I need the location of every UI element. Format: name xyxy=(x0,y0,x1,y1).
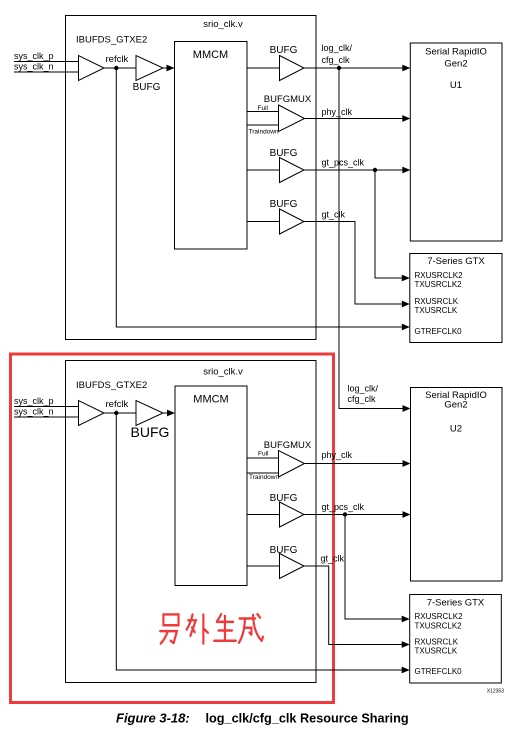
buffer BUFG refclk (bottom) xyxy=(136,401,163,426)
svg-text:gt_pcs_clk: gt_pcs_clk xyxy=(322,158,365,168)
block 7-Series GTX (bottom) xyxy=(410,595,502,684)
arrowhead RXUSRCLK2 (top) xyxy=(402,275,410,282)
svg-text:GTREFCLK0: GTREFCLK0 xyxy=(415,327,463,336)
wire gt_pcs_clk (bottom) xyxy=(304,514,403,516)
caption Figure 3-18 xyxy=(116,711,190,726)
label BUFG log_clk (top) xyxy=(270,45,298,56)
block MMCM (top) xyxy=(175,42,248,250)
svg-text:IBUFDS_GTXE2: IBUFDS_GTXE2 xyxy=(76,380,147,391)
svg-text:sys_clk_n: sys_clk_n xyxy=(14,407,54,417)
svg-text:gt_pcs_clk: gt_pcs_clk xyxy=(322,502,365,512)
buffer BUFG refclk (top) xyxy=(136,56,163,81)
net label gt_clk (top) xyxy=(322,210,346,220)
arrowhead into MMCM (bottom) xyxy=(167,410,175,417)
wire gt_pcs_clk (top) xyxy=(304,169,403,171)
svg-text:X12353: X12353 xyxy=(487,689,504,695)
pin label TXUSRCLK (bottom) xyxy=(415,647,458,656)
label U1 xyxy=(450,80,462,91)
net label sys_clk_p (bottom) xyxy=(14,396,54,406)
label Serial RapidIO (U1) xyxy=(425,47,487,58)
pin label Full (top) xyxy=(258,105,269,112)
buffer BUFG gt_clk (top) xyxy=(280,209,305,234)
svg-text:U2: U2 xyxy=(450,424,462,435)
label srio_clk.v (bottom) xyxy=(203,367,243,378)
net label phy_clk (top) xyxy=(322,107,353,117)
svg-text:sys_clk_p: sys_clk_p xyxy=(14,51,54,61)
junction gt_pcs_clk (bottom) xyxy=(343,512,347,516)
wire BUFG to MMCM (top) xyxy=(163,67,167,69)
net label phy_clk (bottom) xyxy=(322,450,353,460)
svg-text:Full: Full xyxy=(258,451,269,458)
mux BUFGMUX (bottom) xyxy=(279,451,305,478)
label U2 xyxy=(450,424,462,435)
svg-text:log_clk/: log_clk/ xyxy=(322,43,353,53)
figure number tag X12353 xyxy=(487,689,504,695)
svg-text:GTREFCLK0: GTREFCLK0 xyxy=(415,667,463,676)
label 7-Series GTX (bottom) xyxy=(427,598,485,609)
svg-text:BUFGMUX: BUFGMUX xyxy=(264,440,312,451)
svg-text:TXUSRCLK2: TXUSRCLK2 xyxy=(415,280,463,289)
svg-text:log_clk/cfg_clk Resource Shari: log_clk/cfg_clk Resource Sharing xyxy=(206,712,409,726)
pin label GTREFCLK0 (bottom) xyxy=(415,667,463,676)
svg-text:gt_clk: gt_clk xyxy=(321,554,345,564)
annotation 另外生成 (red hand-drawn CJK strokes) xyxy=(160,614,263,643)
svg-text:sys_clk_n: sys_clk_n xyxy=(14,62,54,72)
wire gt_clk to RXUSRCLK (bottom) xyxy=(304,566,402,645)
svg-text:srio_clk.v: srio_clk.v xyxy=(203,19,243,30)
arrowhead phy_clk into U1 xyxy=(402,115,410,122)
arrowhead gt_pcs_clk into U1 xyxy=(402,167,410,174)
svg-text:BUFG: BUFG xyxy=(131,424,170,440)
arrowhead GTREFCLK0 (bottom) xyxy=(402,667,410,674)
svg-text:TXUSRCLK2: TXUSRCLK2 xyxy=(415,622,463,631)
pin label TXUSRCLK2 (bottom) xyxy=(415,622,463,631)
mux BUFGMUX (top) xyxy=(279,105,305,132)
svg-text:BUFGMUX: BUFGMUX xyxy=(264,94,312,105)
svg-text:BUFG: BUFG xyxy=(133,82,161,93)
label BUFGMUX (top) xyxy=(264,94,312,105)
svg-text:7-Series GTX: 7-Series GTX xyxy=(427,598,485,609)
svg-text:sys_clk_p: sys_clk_p xyxy=(14,396,54,406)
net label cfg_clk (top) xyxy=(322,55,351,65)
buffer IBUFDS_GTXE2 (bottom) xyxy=(79,401,105,426)
label BUFG gt_pcs_clk (bottom) xyxy=(270,493,298,504)
wire Traindown stub (bottom) xyxy=(247,472,279,474)
svg-text:refclk: refclk xyxy=(106,54,129,65)
arrowhead log_clk into U1 xyxy=(402,65,410,72)
wire MMCM to BUFG gt_pcs_clk (top) xyxy=(247,169,280,171)
svg-text:cfg_clk: cfg_clk xyxy=(322,55,351,65)
label MMCM (top) xyxy=(193,49,228,61)
label srio_clk.v (top) xyxy=(203,19,243,30)
svg-text:RXUSRCLK: RXUSRCLK xyxy=(415,638,459,647)
arrowhead GTREFCLK0 (top) xyxy=(402,324,410,331)
wire gt_pcs_clk to RXUSRCLK2 (bottom) xyxy=(345,515,402,620)
wire Traindown stub (top) xyxy=(247,124,279,126)
label MMCM (bottom) xyxy=(193,394,228,406)
junction refclk (top) xyxy=(114,66,118,70)
buffer IBUFDS_GTXE2 (top) xyxy=(79,56,105,81)
net label refclk (bottom) xyxy=(106,399,129,410)
block Serial RapidIO Gen2 U1 xyxy=(410,43,502,241)
wire sys_clk_n (top) xyxy=(14,71,79,73)
pin label TXUSRCLK (top) xyxy=(415,306,458,315)
arrowhead phy_clk into U2 xyxy=(403,460,411,467)
wire log_clk to U1 (top) xyxy=(304,67,403,69)
svg-text:Gen2: Gen2 xyxy=(444,400,467,411)
net label gt_pcs_clk (top) xyxy=(322,158,365,168)
svg-text:srio_clk.v: srio_clk.v xyxy=(203,367,243,378)
wire gt_pcs_clk to RXUSRCLK2 (top) xyxy=(375,170,402,278)
wire sys_clk_p (top) xyxy=(14,61,79,63)
pin label TXUSRCLK2 (top) xyxy=(415,280,463,289)
pin label Full (bottom) xyxy=(258,451,269,458)
wire sys_clk_p (bottom) xyxy=(14,406,79,408)
net label gt_pcs_clk (bottom) xyxy=(322,502,365,512)
pin label RXUSRCLK2 (bottom) xyxy=(415,612,464,621)
junction refclk (bottom) xyxy=(114,411,118,415)
buffer BUFG gt_pcs_clk (top) xyxy=(280,158,305,183)
svg-text:Figure 3-18:: Figure 3-18: xyxy=(116,711,190,726)
svg-text:phy_clk: phy_clk xyxy=(322,450,353,460)
svg-text:Serial RapidIO: Serial RapidIO xyxy=(425,47,487,58)
caption title xyxy=(206,712,409,726)
junction log_clk (top) xyxy=(337,66,341,70)
label BUFG gt_pcs_clk (top) xyxy=(270,148,298,159)
svg-text:U1: U1 xyxy=(450,80,462,91)
wire MMCM to BUFG gt_clk (top) xyxy=(247,221,280,223)
wire refclk (bottom) xyxy=(104,412,136,414)
buffer BUFG log_clk (top) xyxy=(280,56,305,81)
label IBUFDS_GTXE2 (bottom) xyxy=(76,380,147,391)
svg-text:Traindown: Traindown xyxy=(249,474,279,481)
wire MMCM to BUFG gt_clk (bottom) xyxy=(247,565,280,567)
net label sys_clk_p (top) xyxy=(14,51,54,61)
svg-text:TXUSRCLK: TXUSRCLK xyxy=(415,647,458,656)
svg-text:BUFG: BUFG xyxy=(270,148,298,159)
wire refclk to GTREFCLK0 (top) xyxy=(116,68,403,327)
wire gt_clk to RXUSRCLK (top) xyxy=(304,222,402,305)
arrowhead RXUSRCLK2 (bottom) xyxy=(402,616,410,623)
pin label GTREFCLK0 (top) xyxy=(415,327,463,336)
svg-text:BUFG: BUFG xyxy=(270,199,298,210)
wire phy_clk (top) xyxy=(305,118,404,120)
svg-text:BUFG: BUFG xyxy=(270,45,298,56)
wire sys_clk_n (bottom) xyxy=(14,416,79,418)
pin label RXUSRCLK (top) xyxy=(415,297,459,306)
pin label Traindown (bottom) xyxy=(249,474,279,481)
svg-text:phy_clk: phy_clk xyxy=(322,107,353,117)
wire MMCM to BUFG gt_pcs_clk (bottom) xyxy=(247,514,280,516)
module box srio_clk.v (top) xyxy=(66,16,317,340)
net label cfg_clk (bottom) xyxy=(348,394,377,404)
svg-text:Traindown: Traindown xyxy=(249,129,279,136)
block MMCM (bottom) xyxy=(175,386,247,586)
highlight red box xyxy=(11,354,334,703)
svg-text:BUFG: BUFG xyxy=(270,545,298,556)
svg-text:MMCM: MMCM xyxy=(193,49,228,61)
svg-text:RXUSRCLK: RXUSRCLK xyxy=(415,297,459,306)
pin label Traindown (top) xyxy=(249,129,279,136)
svg-text:cfg_clk: cfg_clk xyxy=(348,394,377,404)
svg-text:refclk: refclk xyxy=(106,399,129,410)
pin label RXUSRCLK (bottom) xyxy=(415,638,459,647)
svg-text:7-Series GTX: 7-Series GTX xyxy=(427,256,485,267)
arrowhead log_clk into U2 xyxy=(403,405,411,412)
arrowhead RXUSRCLK (top) xyxy=(402,301,410,308)
pin label RXUSRCLK2 (top) xyxy=(415,271,464,280)
net label refclk (top) xyxy=(106,54,129,65)
svg-text:Full: Full xyxy=(258,105,269,112)
label Serial RapidIO (U2) xyxy=(425,390,487,401)
label Gen2 (U1) xyxy=(444,59,467,70)
wire log_clk shared to U2 xyxy=(339,68,403,409)
label BUFG refclk (bottom) xyxy=(131,424,170,440)
svg-text:gt_clk: gt_clk xyxy=(322,210,346,220)
wire BUFG to MMCM (bottom) xyxy=(163,412,167,414)
label BUFG gt_clk (bottom) xyxy=(270,545,298,556)
label IBUFDS_GTXE2 (top) xyxy=(76,35,147,46)
label BUFGMUX (bottom) xyxy=(264,440,312,451)
net label log_clk/ (bottom) xyxy=(348,384,379,394)
net label gt_clk (bottom) xyxy=(321,554,345,564)
junction gt_pcs_clk (top) xyxy=(373,168,377,172)
svg-text:MMCM: MMCM xyxy=(193,394,228,406)
buffer BUFG gt_clk (bottom) xyxy=(280,554,305,579)
label Gen2 (U2) xyxy=(444,400,467,411)
label BUFG gt_clk (top) xyxy=(270,199,298,210)
wire refclk (top) xyxy=(104,67,136,69)
net label sys_clk_n (top) xyxy=(14,62,54,72)
arrowhead into MMCM (top) xyxy=(167,65,175,72)
arrowhead gt_pcs_clk into U2 xyxy=(403,511,411,518)
wire phy_clk (bottom) xyxy=(305,463,404,465)
wire MMCM to BUFG log_clk (top) xyxy=(247,67,280,69)
block Serial RapidIO Gen2 U2 xyxy=(411,388,503,582)
svg-text:BUFG: BUFG xyxy=(270,493,298,504)
net label log_clk/ (top) xyxy=(322,43,353,53)
svg-text:TXUSRCLK: TXUSRCLK xyxy=(415,306,458,315)
svg-text:log_clk/: log_clk/ xyxy=(348,384,379,394)
wire Full stub (top) xyxy=(247,111,279,113)
module box srio_clk.v (bottom) xyxy=(66,361,317,683)
arrowhead RXUSRCLK (bottom) xyxy=(402,641,410,648)
block 7-Series GTX (top) xyxy=(410,254,502,343)
buffer BUFG gt_pcs_clk (bottom) xyxy=(280,502,305,527)
wire Full stub (bottom) xyxy=(247,457,279,459)
label 7-Series GTX (top) xyxy=(427,256,485,267)
svg-text:Gen2: Gen2 xyxy=(444,59,467,70)
label BUFG refclk (top) xyxy=(133,82,161,93)
wire refclk to GTREFCLK0 (bottom) xyxy=(116,413,403,670)
svg-text:IBUFDS_GTXE2: IBUFDS_GTXE2 xyxy=(76,35,147,46)
svg-text:RXUSRCLK2: RXUSRCLK2 xyxy=(415,271,464,280)
svg-text:RXUSRCLK2: RXUSRCLK2 xyxy=(415,612,464,621)
net label sys_clk_n (bottom) xyxy=(14,407,54,417)
